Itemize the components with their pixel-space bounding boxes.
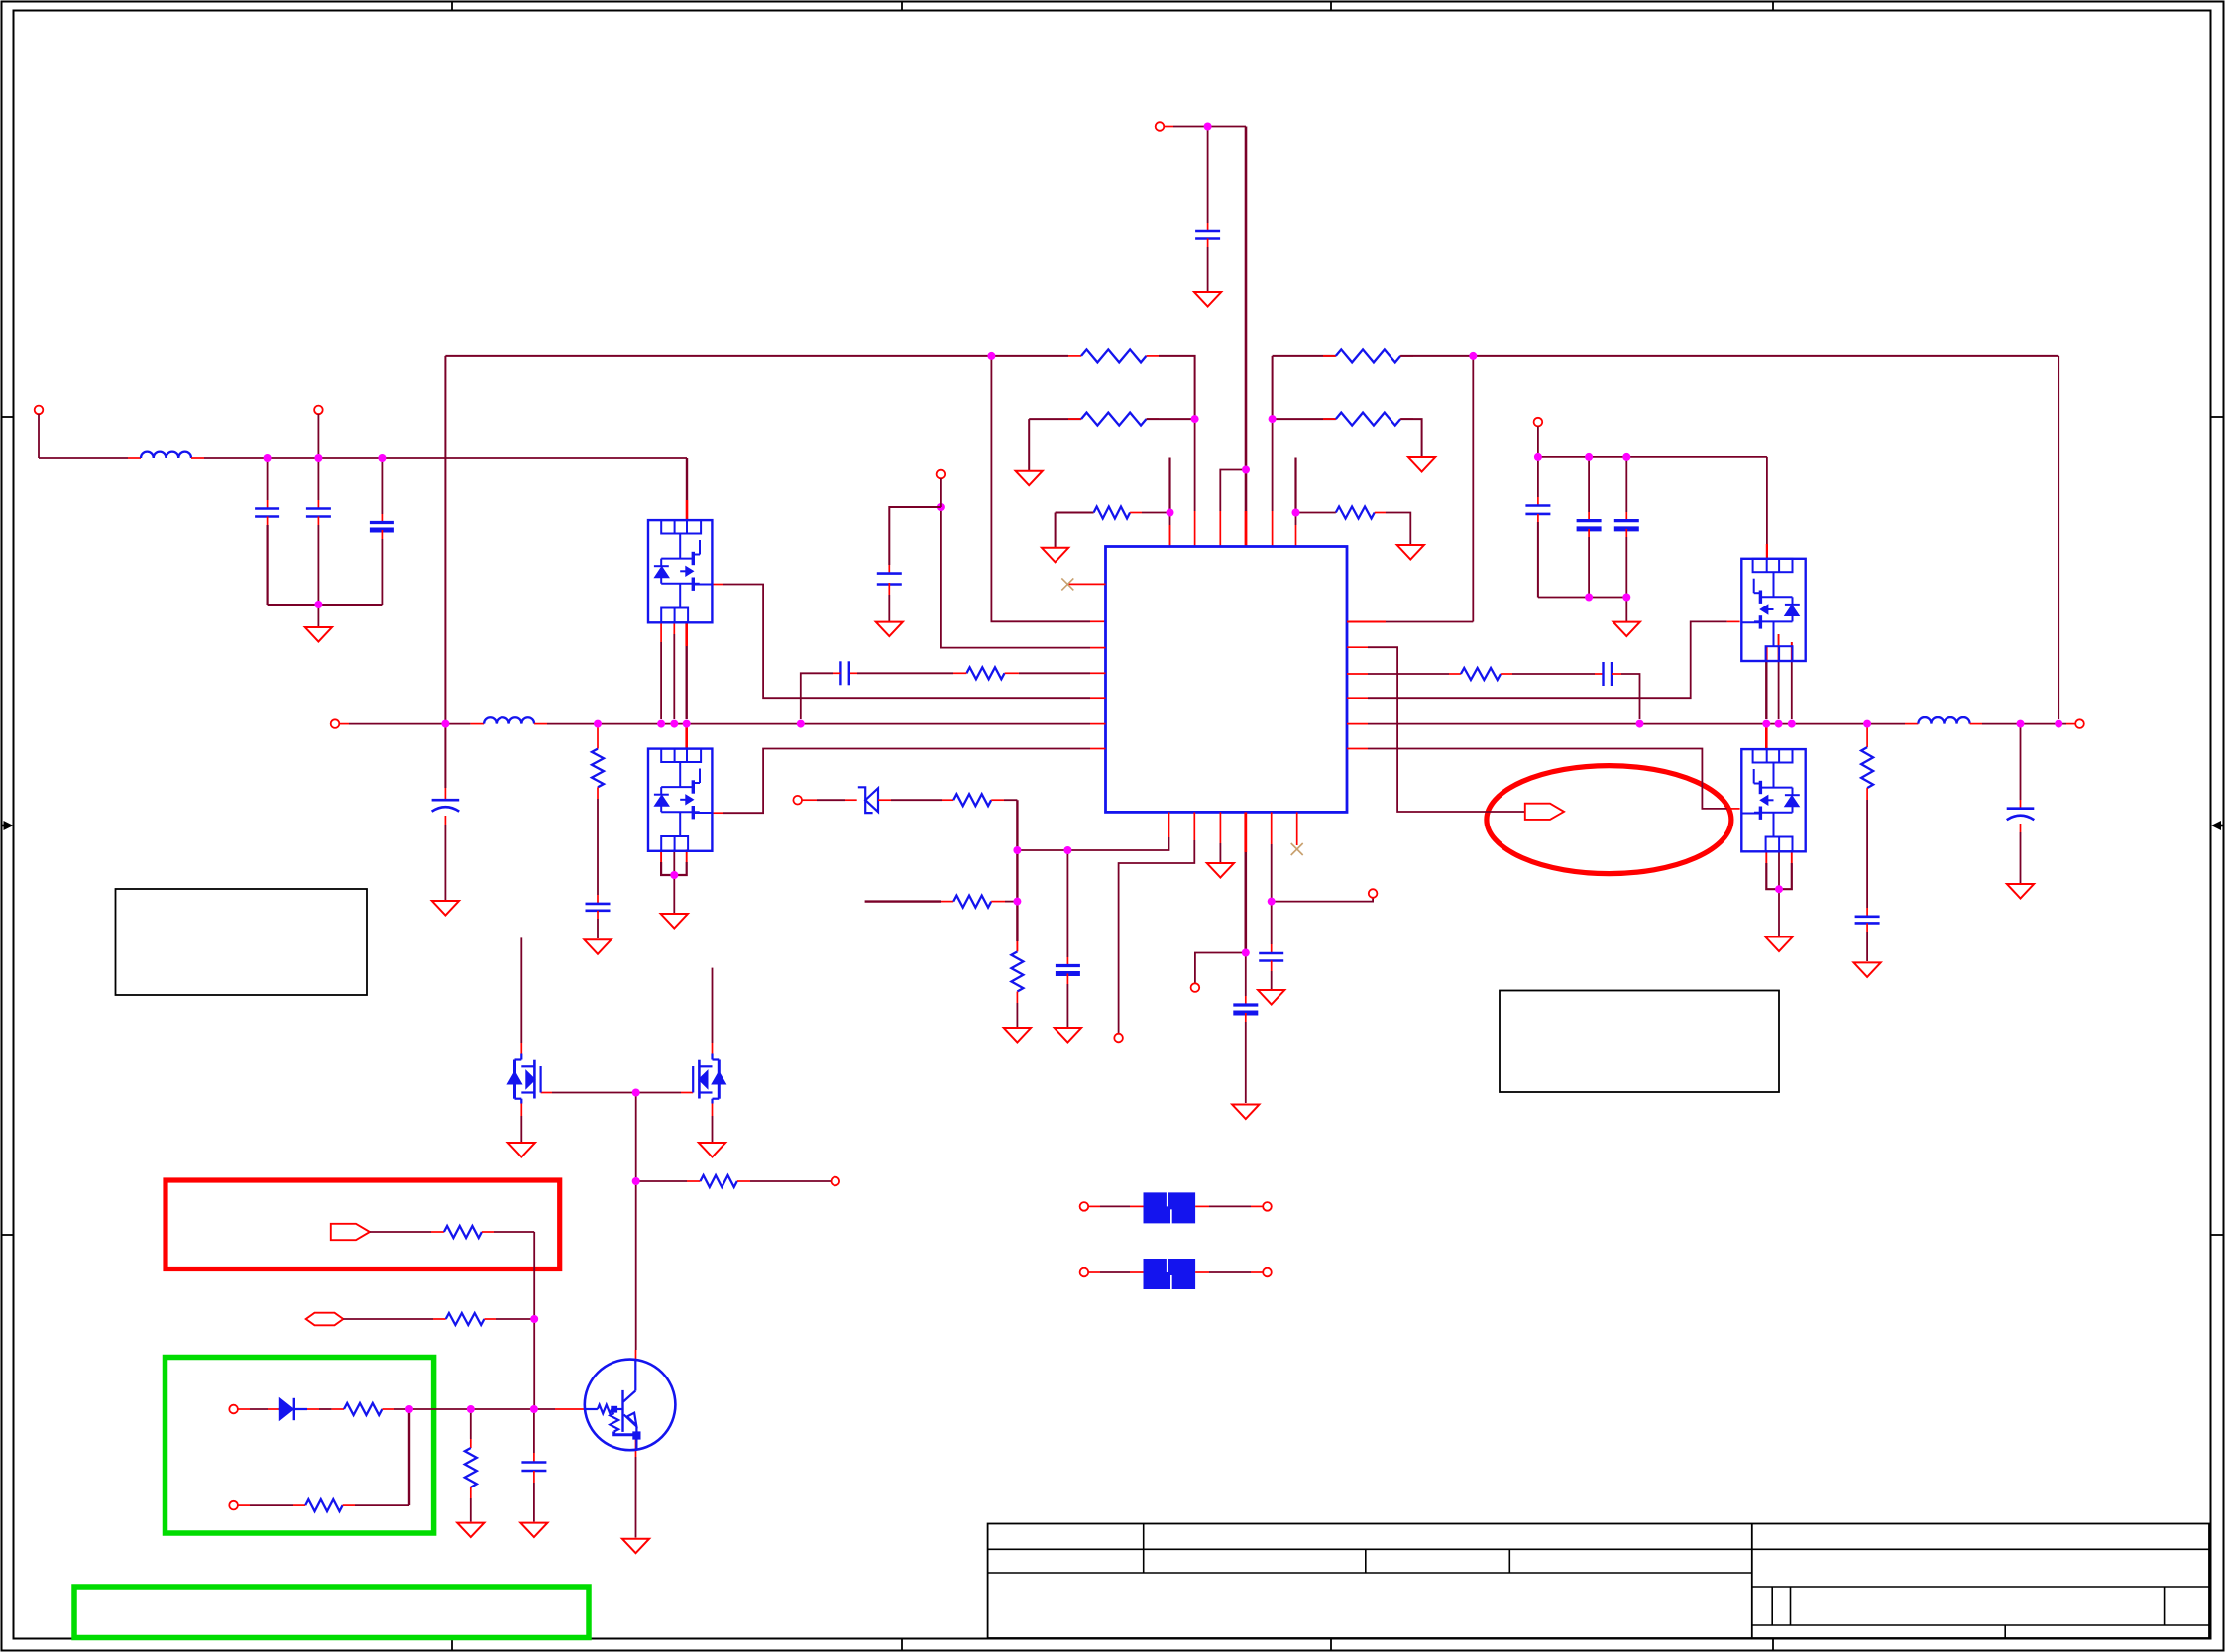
wire J5 stub xyxy=(940,478,942,507)
wire C16 gnd stem xyxy=(597,919,599,938)
wire U1-B2 run xyxy=(1119,840,1195,1033)
wire U1-L2 riser xyxy=(991,356,1090,621)
wire Q4 bottom U xyxy=(1766,863,1792,889)
capacitor C12 xyxy=(1259,952,1283,955)
wire D1 row c xyxy=(394,1408,555,1410)
junction diode row 3 xyxy=(530,1405,538,1413)
wire main rail right a xyxy=(1368,723,1905,725)
ground G3 xyxy=(1042,548,1068,563)
wire red stub RV3 top xyxy=(1016,941,1018,951)
wire C7 bottom xyxy=(1588,537,1590,598)
wire red Q3 drop a stub xyxy=(1791,642,1793,661)
wire TP1 row a xyxy=(370,1231,431,1233)
wire red FB1 r stub xyxy=(1195,1205,1209,1207)
wire red C1 bot stub xyxy=(267,517,269,526)
wire Q2 bot pin b xyxy=(673,849,675,875)
wire red pin U1-R2 xyxy=(1347,646,1368,648)
wire base row a xyxy=(636,1180,687,1182)
wire red stub R14 r xyxy=(382,1408,394,1410)
wire base row b xyxy=(750,1180,832,1182)
capacitor C9 xyxy=(877,572,902,575)
resistor R10 xyxy=(953,896,991,908)
wire RV2 to C17 xyxy=(1866,800,1868,908)
wire H1 row a xyxy=(343,1318,433,1320)
junction hex row xyxy=(530,1315,538,1323)
wire J1 stub xyxy=(38,414,40,458)
wire red J15 stub xyxy=(1088,1205,1100,1207)
ground G23 xyxy=(520,1523,547,1538)
wire red stub R12 l xyxy=(431,1231,444,1233)
wire main rail right b xyxy=(1982,723,2066,725)
resistor R7 xyxy=(966,667,1004,679)
wire red stub C10 r xyxy=(849,672,857,674)
junction FB row B1 a xyxy=(1013,846,1021,854)
junction row0 R1 xyxy=(1469,352,1477,360)
wire FET top feed xyxy=(686,458,688,500)
wire red Q1 drop a stub xyxy=(660,622,662,642)
wire row2 right b xyxy=(1400,419,1421,456)
junction row3 right xyxy=(1292,509,1300,517)
wire red pin U1-B2 xyxy=(1193,812,1195,840)
port J6 SW left xyxy=(331,719,340,728)
wire C17 gnd stem xyxy=(1866,932,1868,961)
wire ret row b xyxy=(355,1504,409,1506)
wire gate drop xyxy=(635,1093,637,1182)
wire gnd stem G7 xyxy=(1625,598,1627,622)
transistor Q3 (high-side FET package, right) xyxy=(1741,559,1805,661)
capacitor C14 xyxy=(1056,964,1080,967)
wire red C2 bot stub xyxy=(317,517,319,526)
wire C18 gnd stem xyxy=(2020,832,2022,883)
wire main rail left b xyxy=(547,723,1090,725)
wire red stub R13 l xyxy=(433,1318,446,1320)
wire red C6 top stub xyxy=(1537,497,1539,506)
junction Q4 source xyxy=(1775,885,1783,893)
capacitor C10 xyxy=(839,661,841,685)
wire red C19 top stub xyxy=(533,1453,535,1463)
port J10 xyxy=(1191,983,1200,992)
wire red C15 bot stub xyxy=(1245,1013,1247,1022)
capacitor C2 xyxy=(306,507,331,510)
transistor Q2 (low-side FET package, left) xyxy=(648,749,712,851)
junction input rail 1 xyxy=(264,454,272,462)
wire red C9 top stub xyxy=(888,565,890,574)
wire row0 left b xyxy=(1159,356,1195,419)
resistor RV2 xyxy=(1861,747,1873,788)
wire Q3 drop c xyxy=(1765,646,1767,719)
wire red pin U1-L4 xyxy=(1090,672,1106,674)
wire C19 top xyxy=(533,1409,535,1453)
wire top feed h xyxy=(1173,126,1246,128)
capacitor C1 xyxy=(255,507,279,510)
port J8 xyxy=(793,796,802,805)
wire FB1 left xyxy=(1100,1205,1130,1207)
wire red RV4 top stub xyxy=(470,1439,472,1448)
border right mid arrow xyxy=(2217,825,2223,827)
wire red stub R7 r xyxy=(1005,672,1019,674)
junction main x2077 xyxy=(2055,720,2062,728)
wire red stub R15 l xyxy=(293,1504,305,1506)
port J15 xyxy=(1080,1202,1089,1211)
wire red stub R5 r xyxy=(1400,418,1413,420)
wire LO1 run xyxy=(723,749,1090,814)
wire red stub L2 l xyxy=(470,723,484,725)
wire red stub right of L1 xyxy=(191,457,204,459)
wire C7 top xyxy=(1588,457,1590,512)
wire red C3 top stub xyxy=(381,514,383,523)
wire row2 right a xyxy=(1273,418,1336,420)
wire C12 gnd stem xyxy=(1271,971,1273,989)
wire row1 right b xyxy=(1400,355,2058,357)
wire red pin Q2 gate xyxy=(713,812,723,814)
wire input rail left xyxy=(39,457,128,459)
wire red C5 top xyxy=(1207,223,1209,231)
wire red C18 bot stub xyxy=(2020,824,2022,832)
wire red C16 top stub xyxy=(597,895,599,904)
wire right FET top feed xyxy=(1766,457,1768,544)
wire red stub R2 l xyxy=(1068,418,1081,420)
wire red C2 top stub xyxy=(317,500,319,509)
resistor RV3 xyxy=(1011,951,1023,991)
capacitor C18 xyxy=(2007,807,2035,810)
wire red J17 stub xyxy=(1088,1271,1100,1273)
ground G15 xyxy=(1004,1028,1031,1043)
wire red J7 stub xyxy=(2066,723,2075,725)
port J9 xyxy=(1114,1034,1123,1043)
wire red C18 top stub xyxy=(2020,800,2022,809)
inductor L2 xyxy=(484,717,534,723)
hex net flag H1 xyxy=(306,1313,344,1326)
wire red Q4 bot pin a xyxy=(1765,850,1767,863)
resistor R14 xyxy=(344,1403,382,1415)
wire red stub R10 l xyxy=(941,901,953,903)
border zone ticks xyxy=(451,2,453,11)
wire Q6 src stem xyxy=(712,1116,714,1142)
wire red pin U1-L6 xyxy=(1090,723,1106,725)
wire U1-R2 run xyxy=(1368,647,1525,812)
wire red Q1 drop c stub xyxy=(685,622,688,646)
capacitor C6 xyxy=(1525,504,1550,507)
wire C19 gnd stem xyxy=(533,1483,535,1522)
junction VIN sense xyxy=(937,503,945,511)
wire row3 left a xyxy=(1056,512,1094,514)
wire U1-L3 run xyxy=(941,507,1090,648)
wire red pin U1-R3 xyxy=(1347,673,1368,675)
resistor R11 xyxy=(701,1175,737,1187)
wire C1 bottom xyxy=(267,525,269,605)
wire red stub L2 r xyxy=(534,723,547,725)
junction main x603 xyxy=(594,720,602,728)
wire red Q3 drop b stub xyxy=(1778,634,1780,661)
ground G10 xyxy=(584,939,611,954)
junction main Q1c xyxy=(683,720,691,728)
border left mid arrow xyxy=(2,825,8,827)
wire red FET top pin xyxy=(686,500,689,520)
wire red Q7 emitter stub xyxy=(635,1439,637,1457)
wire gnd stem G3 xyxy=(1055,513,1057,548)
junction FB sense xyxy=(1013,898,1021,906)
port J16 xyxy=(1263,1202,1272,1211)
wire zener b xyxy=(891,799,942,801)
wire red stub C11 r xyxy=(1612,673,1621,675)
port J18 xyxy=(1263,1268,1272,1277)
wire Q5 drain feed xyxy=(520,937,522,1043)
junction B4 node xyxy=(1242,949,1250,957)
wire C2 top xyxy=(317,458,319,500)
junction main x449 xyxy=(441,720,449,728)
port J5 xyxy=(937,470,946,479)
wire C8 bottom xyxy=(1625,537,1627,598)
junction right rail 2 xyxy=(1585,453,1593,461)
wire U1-R3 a xyxy=(1368,673,1449,675)
wire red pin U1-L2 xyxy=(1090,620,1106,622)
wire red Q6 drain stub xyxy=(712,1043,714,1054)
junction main x1654 xyxy=(1636,720,1644,728)
wire red stub RV1 top xyxy=(597,726,599,749)
wire LO2 run xyxy=(1368,749,1727,809)
wire red stub R9 l xyxy=(942,799,953,801)
wire B4 to C15 xyxy=(1245,953,1247,997)
wire red Q2 bot pin c xyxy=(686,849,688,862)
title block xyxy=(988,1524,2209,1639)
test point flag TP2 xyxy=(1525,804,1564,820)
wire red stub R4 l xyxy=(1323,355,1336,357)
resistor R6 xyxy=(1336,507,1375,519)
wire U1-B3 stem xyxy=(1219,843,1221,862)
resistor RV4 xyxy=(465,1448,477,1487)
wire red Q4 top pin xyxy=(1765,727,1768,749)
junction input rail 2 xyxy=(314,454,322,462)
wire red RV4 bot stub xyxy=(470,1487,472,1498)
highlight red rectangle xyxy=(166,1180,560,1269)
wire ret row a xyxy=(250,1504,293,1506)
wire Q7 emitter stem xyxy=(635,1457,637,1538)
wire Q2 bottom U xyxy=(661,862,687,875)
highlight green rectangle 2 xyxy=(74,1587,589,1638)
wire red C12 top stub xyxy=(1271,944,1273,953)
wire red pin U1-t1 xyxy=(1169,525,1171,547)
wire red Q5 drain stub xyxy=(520,1043,522,1054)
wire C3 bottom xyxy=(381,539,383,605)
capacitor C17 xyxy=(1855,915,1880,918)
wire red Q3 drop c stub xyxy=(1765,646,1768,661)
ground G17 xyxy=(1854,962,1881,977)
wire D1 row a xyxy=(250,1408,268,1410)
wire red FB2 r stub xyxy=(1195,1271,1209,1273)
wire red stub C10 l xyxy=(833,672,840,674)
wire U1-L4 c xyxy=(801,673,833,719)
wire red pin U1-B4 xyxy=(1244,812,1247,852)
wire U1-B5 drop xyxy=(1271,844,1273,902)
wire FB2 left xyxy=(1100,1271,1130,1273)
wire gate tie left xyxy=(552,1092,636,1094)
wire HO2 run xyxy=(1368,621,1727,698)
ground G7 xyxy=(1613,622,1640,637)
wire red C16 bot stub xyxy=(597,911,599,919)
wire red C8 bot stub xyxy=(1625,529,1627,537)
wire red stub R9 r xyxy=(991,799,1004,801)
wire red stub RV3 bot xyxy=(1016,992,1018,1004)
wire J4 stub xyxy=(1537,426,1539,457)
wire red pin U1-t4 xyxy=(1245,511,1248,547)
junction row1-row2 right xyxy=(1269,415,1277,423)
junction right rail 1 xyxy=(1534,453,1542,461)
wire red stub R5 l xyxy=(1323,418,1336,420)
wire red stub L3 l xyxy=(1905,723,1918,725)
test point flag TP1 xyxy=(331,1224,370,1240)
wire red C8 top stub xyxy=(1625,512,1627,521)
transistor Q7 (digital NPN) xyxy=(585,1360,676,1451)
wire gate tie right xyxy=(636,1092,681,1094)
wire red stub RV2 bot xyxy=(1866,788,1868,800)
wire red Q7 collector stub xyxy=(635,1350,637,1360)
port J13 xyxy=(229,1405,238,1414)
wire red zener l stub xyxy=(845,799,857,801)
junction cap tie xyxy=(314,601,322,608)
wire red stub R12 r xyxy=(482,1231,494,1233)
wire red stub R13 r xyxy=(484,1318,496,1320)
wire red pin U1-R6 xyxy=(1347,748,1368,750)
ground G2 xyxy=(1016,471,1043,486)
capacitor C8 xyxy=(1614,519,1639,522)
wire red stub R1 r xyxy=(1147,355,1160,357)
wire J10 branch xyxy=(1195,953,1246,984)
note box 2 xyxy=(1500,991,1779,1093)
wire red pin U1-L1 no-connect xyxy=(1067,583,1105,585)
junction main Q3b xyxy=(1775,720,1783,728)
wire row1 right a xyxy=(1273,355,1336,357)
wire red C5 bot xyxy=(1207,239,1209,248)
wire red right FET top pin xyxy=(1766,544,1768,559)
resistor R4 xyxy=(1336,349,1400,362)
junction main Q3c xyxy=(1762,720,1770,728)
wire ret riser xyxy=(408,1409,410,1505)
wire red C4 bot stub xyxy=(444,816,446,825)
wire red J16 stub xyxy=(1251,1205,1263,1207)
wire right input rail xyxy=(1538,456,1767,458)
wire C5 gnd stem xyxy=(1207,247,1209,292)
ground G6 xyxy=(1194,292,1221,307)
wire red pin U1-R1 xyxy=(1347,621,1386,623)
resistor R15 xyxy=(305,1499,342,1511)
junction row3 left xyxy=(1167,509,1174,517)
wire pin U1-t1 upper xyxy=(1169,513,1171,526)
capacitor C3 xyxy=(370,521,394,524)
wire red pin U1-t6 xyxy=(1295,525,1297,547)
wire U1-t3 jog xyxy=(1220,470,1246,512)
junction main x2038 xyxy=(2017,720,2025,728)
wire C1 top xyxy=(267,458,269,500)
diode D1 xyxy=(279,1408,307,1410)
ground G8 xyxy=(876,622,903,637)
wire red stub R4 r xyxy=(1400,355,1413,357)
inductor L1 xyxy=(141,452,191,458)
wire red stub R2 r xyxy=(1147,418,1160,420)
wire red C12 bot stub xyxy=(1271,961,1273,972)
capacitor C4 xyxy=(432,799,460,802)
wire C14 gnd stem xyxy=(1066,984,1068,1027)
wire row3 stub right xyxy=(1294,458,1296,513)
wire VCC thick drop xyxy=(1245,127,1248,470)
wire C8 top xyxy=(1625,457,1627,512)
wire red J3 stub xyxy=(1164,126,1173,128)
port J17 xyxy=(1080,1268,1089,1277)
wire gnd stem G1 xyxy=(317,605,319,627)
ground G16 xyxy=(1055,1028,1081,1043)
wire RV4 top xyxy=(470,1409,472,1439)
wire red stub R6 r xyxy=(1375,512,1386,514)
ground G18 xyxy=(2007,884,2034,899)
wire pin U1-t6 upper xyxy=(1295,513,1297,526)
wire red C6 bot stub xyxy=(1537,514,1539,522)
junction main Q1b xyxy=(670,720,678,728)
wire U1-L4 a xyxy=(1019,672,1090,674)
wire RV1 to C16 xyxy=(597,799,599,895)
ground G5 xyxy=(1408,457,1435,472)
wire red stub R8 l xyxy=(1449,673,1461,675)
ground G24 xyxy=(622,1539,649,1554)
wire red J14 stub xyxy=(238,1504,250,1506)
capacitor C19 xyxy=(521,1461,546,1464)
resistor R5 xyxy=(1336,413,1400,426)
wire pin U1-t5 upper xyxy=(1272,419,1274,511)
wire FB bus drop xyxy=(1016,800,1018,941)
wire red pin U1-L7 xyxy=(1090,748,1106,750)
wire row0 right end drop xyxy=(2058,356,2059,719)
wire row1 right riser xyxy=(1272,356,1274,419)
wire row2 left b xyxy=(1147,418,1195,420)
wire Q6 drain feed xyxy=(712,968,714,1043)
wire zener a xyxy=(817,799,845,801)
wire cap bottom tie xyxy=(268,604,383,606)
ground G9 xyxy=(661,914,688,929)
wire U1-B1 run xyxy=(1017,837,1168,850)
wire red J8 stub xyxy=(802,799,817,801)
wire RV4 gnd stem xyxy=(470,1498,472,1522)
ground G11 xyxy=(432,901,459,916)
highlight green rectangle 1 xyxy=(166,1358,434,1534)
junction main x807 xyxy=(797,720,805,728)
capacitor C16 xyxy=(586,903,611,906)
wire Q2 gnd stem xyxy=(673,875,675,913)
port J1 left input xyxy=(35,406,44,415)
junction PMOS gates xyxy=(632,1089,640,1097)
wire red stub R11 l xyxy=(687,1180,701,1182)
transistor Q4 (low-side FET package, right) xyxy=(1741,749,1805,851)
wire red stub R7 l xyxy=(953,672,966,674)
wire R1-feedback riser xyxy=(1472,356,1474,622)
wire J2 stub xyxy=(317,414,319,458)
junction main Q3a xyxy=(1788,720,1796,728)
wire red pin U1-R5 xyxy=(1347,723,1368,725)
capacitor C11 xyxy=(1602,662,1604,686)
wire red D1 l stub xyxy=(268,1408,279,1410)
zener diode D2 xyxy=(865,788,878,812)
junction base node xyxy=(632,1177,640,1185)
junction top feed xyxy=(1204,123,1212,131)
wire red pin U1-B5 xyxy=(1271,812,1273,844)
wire row0 left a xyxy=(445,355,1068,357)
wire red D1 r stub xyxy=(307,1408,319,1410)
inductor L3 xyxy=(1918,717,1969,724)
junction row0-row2 left xyxy=(1191,415,1199,423)
wire red C17 top stub xyxy=(1866,908,1868,917)
ground G4 xyxy=(1397,545,1424,560)
wire collector drop xyxy=(635,1181,637,1350)
wire sense row b xyxy=(1005,901,1017,903)
capacitor C15 xyxy=(1233,1003,1258,1006)
note box 1 xyxy=(116,889,368,995)
